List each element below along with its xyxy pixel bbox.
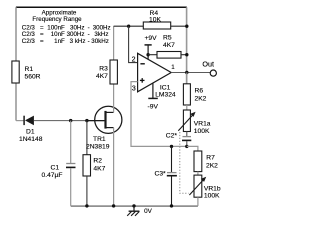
- wire top feedback rail: [16, 6, 187, 8]
- svg-text:2K2: 2K2: [195, 95, 207, 102]
- resistor R7: [194, 151, 218, 172]
- op-amp IC1: [138, 53, 176, 98]
- node rail C3: [170, 204, 173, 207]
- capacitor C2: [166, 132, 192, 147]
- resistor R2: [83, 121, 106, 206]
- svg-text:4K7: 4K7: [163, 42, 175, 49]
- svg-text:30kHz: 30kHz: [91, 38, 109, 45]
- node rail TR1: [112, 204, 115, 207]
- svg-text:1: 1: [171, 64, 175, 71]
- -9V supply: [148, 83, 159, 111]
- resistor R1: [12, 61, 19, 83]
- node rail R2: [85, 204, 88, 207]
- svg-text:C1: C1: [51, 164, 60, 171]
- wire pin3 riser to node X: [131, 82, 187, 147]
- svg-text:R3: R3: [99, 66, 108, 73]
- diode D1: [16, 116, 43, 144]
- svg-text:2: 2: [132, 56, 136, 63]
- resistor R5: [148, 35, 187, 59]
- svg-text:-: -: [88, 38, 90, 45]
- potentiometer VR1b: [189, 175, 221, 199]
- svg-text:4K7: 4K7: [96, 73, 108, 80]
- resistor R4: [114, 10, 187, 29]
- svg-text:10K: 10K: [149, 16, 161, 23]
- svg-text:C2/3: C2/3: [22, 38, 36, 45]
- svg-text:R2: R2: [93, 157, 102, 164]
- svg-text:+9V: +9V: [145, 35, 158, 42]
- svg-text:D1: D1: [26, 129, 35, 136]
- wire node X to R7: [187, 146, 198, 151]
- transistor TR1 (JFET 2N3819): [86, 106, 122, 150]
- svg-text:3 kHz: 3 kHz: [70, 38, 86, 45]
- node X C2 junction: [185, 145, 188, 148]
- svg-text:0.47µF: 0.47µF: [42, 172, 63, 179]
- frequency table text: [22, 9, 111, 45]
- node R4 right junction: [185, 25, 188, 28]
- wire TR1 source down to 0V rail: [113, 128, 115, 206]
- wire op-amp output to Out: [171, 72, 210, 74]
- node X C3 junction: [170, 145, 173, 148]
- svg-text:C2*: C2*: [166, 133, 178, 140]
- node R5 right junction: [185, 53, 188, 56]
- resistor R6: [183, 84, 206, 105]
- svg-text:C3*: C3*: [155, 170, 167, 177]
- svg-text:-9V: -9V: [148, 104, 159, 111]
- svg-text:4K7: 4K7: [93, 166, 105, 173]
- node C1 junction: [69, 119, 72, 122]
- wire 0V bottom rail: [71, 205, 198, 207]
- svg-text:R6: R6: [195, 88, 204, 95]
- svg-text:VR1b: VR1b: [204, 185, 221, 192]
- svg-text:1nF: 1nF: [54, 38, 65, 45]
- svg-text:LM324: LM324: [155, 91, 176, 98]
- dashed gang line VR1a-VR1b: [180, 132, 189, 193]
- wire right feedback rail: [186, 7, 188, 84]
- svg-text:=: =: [40, 38, 44, 45]
- node R2 junction: [85, 119, 88, 122]
- svg-text:0V: 0V: [144, 208, 153, 215]
- potentiometer VR1a: [178, 110, 211, 135]
- capacitor C1: [42, 121, 76, 206]
- resistor R3: [96, 60, 117, 84]
- svg-text:3: 3: [132, 85, 136, 92]
- svg-text:R5: R5: [163, 35, 172, 42]
- svg-text:VR1a: VR1a: [194, 120, 211, 127]
- wire left edge from top rail down to D1: [15, 7, 17, 120]
- svg-text:TR1: TR1: [93, 136, 106, 143]
- svg-text:Frequency Range: Frequency Range: [32, 16, 82, 23]
- svg-text:Out: Out: [202, 60, 214, 69]
- svg-text:2K2: 2K2: [206, 163, 218, 170]
- svg-text:560R: 560R: [25, 74, 41, 81]
- svg-text:R7: R7: [206, 155, 215, 162]
- wire R7 to VR1b: [197, 172, 199, 176]
- wire R6 to VR1a: [186, 105, 188, 110]
- node R4 left junction: [127, 25, 130, 28]
- Out terminal: [202, 60, 216, 77]
- node R5 left junction: [146, 53, 149, 56]
- wire pin2 riser: [129, 26, 138, 62]
- node output junction: [185, 71, 188, 74]
- wire TR1 drain up through R3 to R4: [113, 26, 115, 112]
- node rail ground: [132, 204, 135, 207]
- +9V supply: [145, 35, 158, 59]
- svg-text:R1: R1: [25, 66, 34, 73]
- ground 0V: [127, 206, 152, 216]
- svg-text:100K: 100K: [204, 192, 220, 199]
- capacitor C3: [155, 146, 177, 206]
- svg-text:2N3819: 2N3819: [86, 144, 110, 151]
- svg-text:100K: 100K: [194, 128, 210, 135]
- wire D1 to gate node: [34, 120, 105, 122]
- wire output down to R6: [186, 73, 188, 84]
- wire VR1b to 0V rail: [197, 197, 199, 206]
- svg-text:1N4148: 1N4148: [19, 136, 43, 143]
